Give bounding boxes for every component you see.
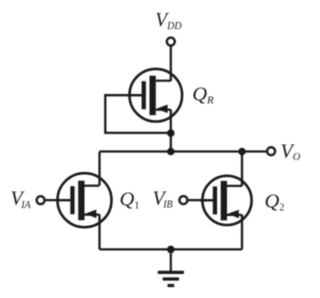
terminal V_DD bbox=[167, 38, 175, 46]
wire Q1 source down to ground rail bbox=[98, 215, 100, 250]
wire output rail corner down to Q1 drain bbox=[98, 152, 100, 186]
wire Q_R source down to output rail bbox=[170, 110, 172, 152]
transistor Q_R bbox=[129, 69, 182, 122]
terminal V_IB bbox=[179, 196, 187, 204]
junction node ground bbox=[167, 246, 175, 254]
transistor Q1 bbox=[58, 173, 112, 227]
svg-text:VIB: VIB bbox=[153, 187, 173, 210]
ground bbox=[158, 249, 184, 285]
wire V_DD terminal to Q_R drain bbox=[170, 46, 172, 82]
svg-text:VO: VO bbox=[281, 141, 301, 163]
svg-text:VIA: VIA bbox=[11, 188, 32, 211]
junction node Q_R gate-source bbox=[167, 129, 175, 137]
wire V_IB terminal to Q2 gate bbox=[187, 199, 214, 201]
svg-text:VDD: VDD bbox=[155, 10, 182, 32]
transistor Q2 bbox=[200, 176, 252, 225]
wire V_IA terminal to Q1 gate bbox=[45, 199, 71, 201]
wire ground rail bbox=[100, 248, 243, 250]
svg-text:QR: QR bbox=[192, 84, 214, 107]
wire output rail bbox=[100, 150, 268, 152]
junction node Q_R source on output rail bbox=[167, 148, 175, 156]
terminal V_IA bbox=[37, 196, 45, 204]
svg-text:Q1: Q1 bbox=[120, 188, 140, 211]
svg-text:Q2: Q2 bbox=[265, 191, 285, 214]
terminal V_O bbox=[267, 147, 275, 155]
wire Q2 source down to ground rail bbox=[241, 215, 243, 250]
junction node Q2 drain on output rail bbox=[238, 148, 246, 156]
wire Q_R gate feedback loop to source node bbox=[105, 95, 170, 133]
wire Q2 drain from output rail bbox=[241, 152, 243, 187]
